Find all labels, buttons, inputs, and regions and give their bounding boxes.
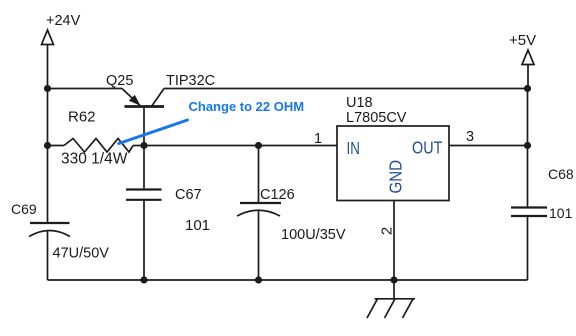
wire mid rail left bbox=[48, 145, 65, 147]
svg-text:L7805CV: L7805CV bbox=[346, 110, 407, 126]
svg-text:100U/35V: 100U/35V bbox=[281, 227, 346, 243]
wire ground rail bbox=[48, 279, 528, 281]
annotation leader line (blue) bbox=[119, 120, 188, 144]
ground symbol bbox=[367, 299, 415, 318]
svg-text:2: 2 bbox=[379, 227, 396, 235]
svg-text:C67: C67 bbox=[175, 187, 202, 203]
svg-text:U18: U18 bbox=[346, 95, 373, 111]
capacitor C67 101 bbox=[126, 146, 210, 281]
wire pin 2 lead bbox=[393, 201, 395, 281]
wire left vertical top node to mid rail bbox=[47, 89, 49, 146]
svg-text:C126: C126 bbox=[260, 187, 295, 203]
wire pin 3 to +5V node bbox=[449, 145, 528, 147]
svg-text:330 1/4W: 330 1/4W bbox=[61, 151, 128, 168]
capacitor C69 47U/50V bbox=[11, 146, 109, 281]
capacitor C126 100U/35V bbox=[237, 146, 346, 281]
transistor Q25 TIP32C bbox=[106, 73, 215, 107]
svg-text:C69: C69 bbox=[11, 201, 37, 217]
svg-text:+5V: +5V bbox=[509, 32, 536, 49]
svg-text:+24V: +24V bbox=[46, 13, 81, 29]
capacitor C68 101 bbox=[511, 146, 574, 281]
resistor R62 330 1/4W bbox=[61, 109, 133, 168]
node junction dots bbox=[44, 85, 531, 284]
wire right vertical to pin3 node bbox=[527, 89, 529, 146]
wire collector to +5V node bbox=[164, 88, 528, 90]
wire base lead bbox=[143, 107, 145, 146]
svg-text:IN: IN bbox=[347, 139, 360, 158]
wire emitter horizontal bbox=[48, 88, 123, 90]
svg-text:3: 3 bbox=[466, 129, 474, 145]
svg-text:101: 101 bbox=[185, 217, 210, 234]
svg-text:TIP32C: TIP32C bbox=[166, 73, 215, 89]
svg-text:OUT: OUT bbox=[412, 138, 442, 158]
power symbol +5V bbox=[509, 32, 536, 65]
svg-text:R62: R62 bbox=[68, 109, 96, 126]
regulator U18 L7805CV bbox=[337, 95, 449, 201]
svg-text:Change to 22 OHM: Change to 22 OHM bbox=[189, 99, 305, 114]
svg-text:1: 1 bbox=[314, 131, 322, 147]
svg-text:101: 101 bbox=[549, 205, 573, 221]
wire +5V arrow to top rail bbox=[527, 65, 529, 89]
wire +24V arrow to top node bbox=[47, 45, 49, 89]
svg-text:GND: GND bbox=[385, 160, 406, 194]
wire ground stub bbox=[393, 280, 395, 299]
svg-text:47U/50V: 47U/50V bbox=[53, 246, 110, 262]
svg-text:Q25: Q25 bbox=[106, 73, 133, 89]
power symbol +24V bbox=[42, 13, 81, 45]
svg-text:C68: C68 bbox=[548, 166, 574, 182]
wire mid rail right to U18 bbox=[133, 145, 337, 147]
